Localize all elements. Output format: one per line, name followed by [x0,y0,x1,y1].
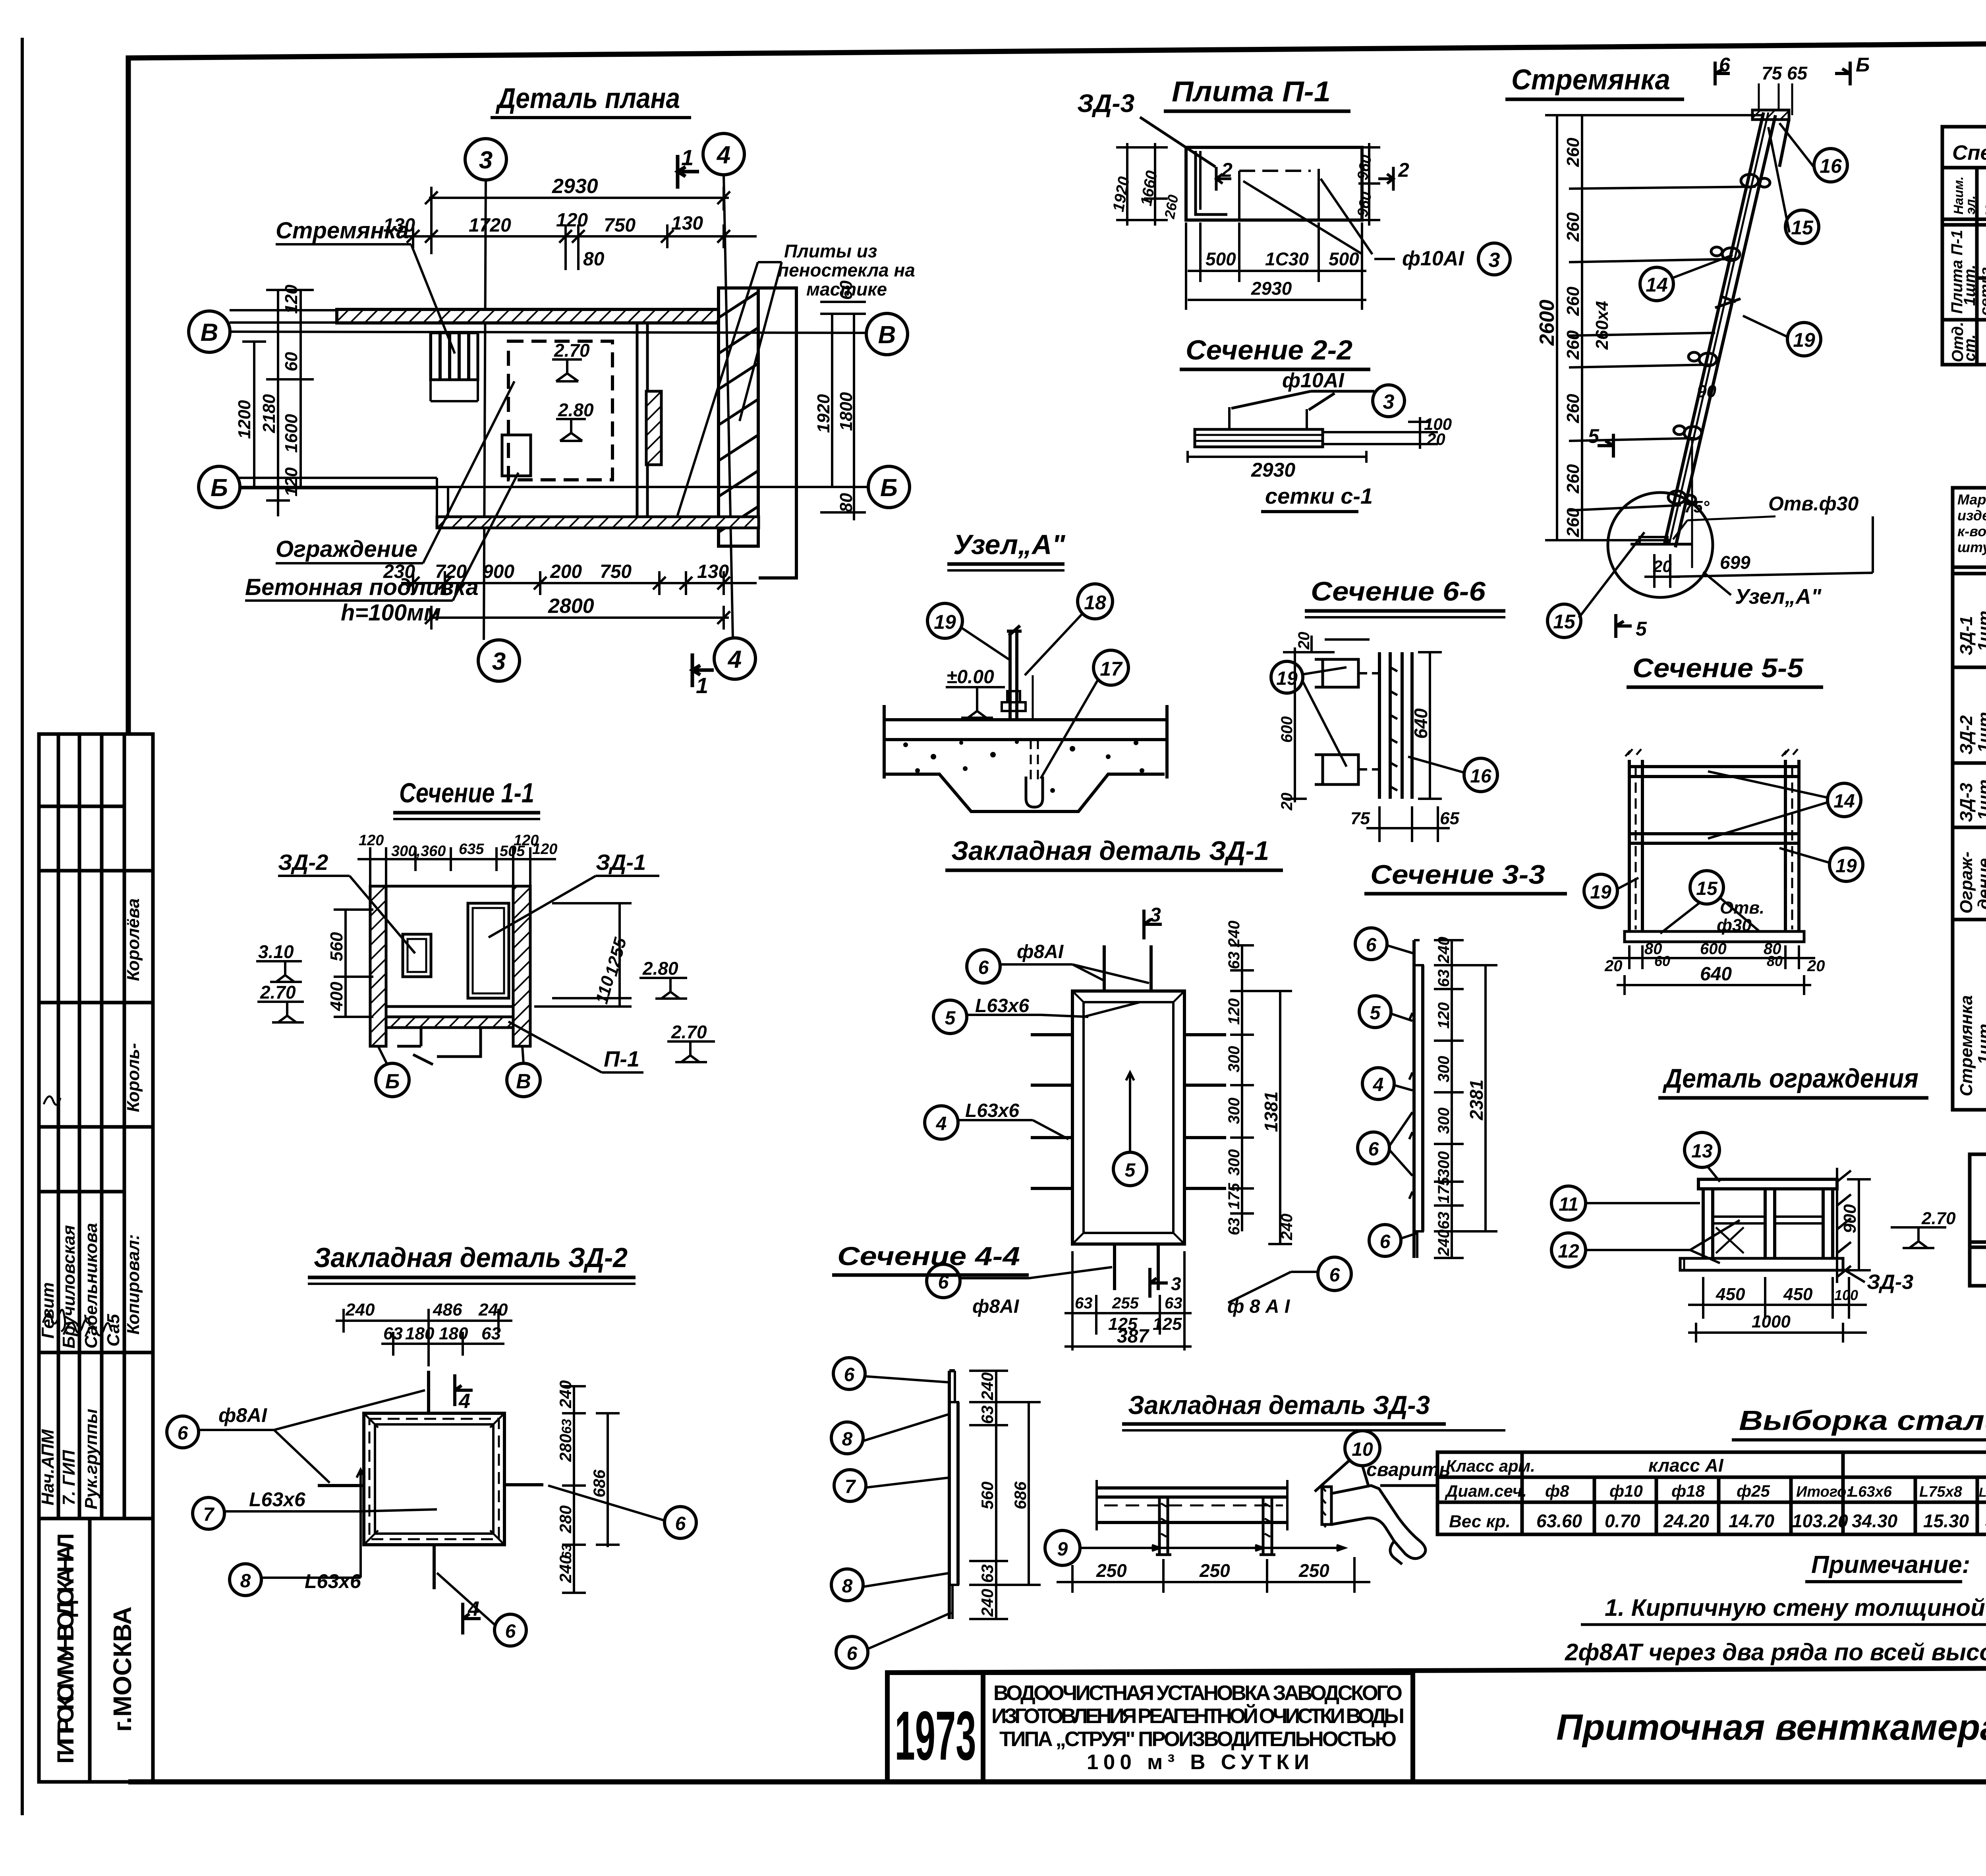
svg-text:П-1: П-1 [604,1046,639,1071]
plan axis circle 3 top [189,133,910,681]
section 1-1 left dims rotated [334,910,373,1017]
section 1-1 inner big rect ZD-1 [468,903,509,998]
svg-text:5: 5 [1125,1160,1136,1181]
svg-text:900: 900 [1840,1204,1860,1233]
svg-text:ф10АI: ф10АI [1402,247,1464,270]
svg-text:80: 80 [1767,953,1783,969]
ladder circles [1547,149,1847,638]
svg-text:Копировал:: Копировал: [124,1234,143,1335]
ZD-2 square frame [364,1413,504,1545]
svg-text:120: 120 [1435,1002,1453,1029]
svg-text:63: 63 [481,1324,501,1343]
svg-text:65: 65 [1440,809,1459,828]
svg-text:ТИПА „СТРУЯ" ПРОИЗВОДИТЕЛЬНОСТ: ТИПА „СТРУЯ" ПРОИЗВОДИТЕЛЬНОСТЬЮ [999,1727,1397,1751]
svg-text:120: 120 [359,832,384,849]
ZD-1 section mark 3 [1144,910,1168,1298]
ZD-3 plate [1097,1480,1287,1555]
table: steel selection [1437,1452,1986,1534]
svg-text:240: 240 [556,1380,575,1408]
svg-text:7: 7 [203,1504,215,1525]
plate P-1 left dims [1116,143,1192,226]
svg-text:686: 686 [1011,1481,1030,1509]
svg-text:1шт: 1шт [1974,779,1986,820]
svg-text:6: 6 [178,1423,188,1444]
svg-text:9: 9 [1057,1539,1068,1560]
title block description [991,1681,1404,1774]
svg-text:19: 19 [1793,329,1815,351]
svg-text:Стремянка: Стремянка [276,218,409,243]
svg-text:Мар-: Мар- [1983,186,1986,216]
svg-text:L75х8: L75х8 [1919,1484,1963,1500]
svg-text:Сечение 3-3: Сечение 3-3 [1370,860,1545,890]
svg-text:2.70: 2.70 [671,1022,707,1042]
svg-text:260: 260 [1563,330,1583,360]
svg-text:6: 6 [938,1272,949,1293]
title block [887,1666,1986,1782]
plan bottom dim chain [401,571,757,595]
svg-text:14.70: 14.70 [1729,1511,1775,1531]
table: materials consumption [1970,1154,1986,1286]
svg-text:240: 240 [978,1589,997,1617]
svg-text:60: 60 [1654,953,1670,969]
plan bottom wall thin segment [238,478,448,527]
svg-text:издел: издел [1957,507,1986,524]
svg-text:ГИПРОКОММУНВОДОКАНАЛ: ГИПРОКОММУНВОДОКАНАЛ [53,1533,79,1764]
svg-text:20: 20 [1653,557,1672,576]
svg-text:63.60: 63.60 [1536,1511,1582,1531]
stamp column table [39,734,153,1782]
svg-text:5: 5 [1370,1003,1381,1024]
svg-text:Узел„А": Узел„А" [1735,585,1822,609]
plan dim 2800 [425,606,730,630]
plan labels with leaders [245,218,479,626]
ladder section marks 6 top [1715,62,1850,85]
svg-text:387: 387 [1117,1326,1149,1347]
svg-text:640: 640 [1410,708,1431,739]
svg-text:В: В [878,321,896,349]
svg-text:20: 20 [1278,793,1296,811]
svg-text:эл.: эл. [1963,195,1978,214]
node A slab [884,705,1167,811]
svg-text:Б: Б [1856,54,1870,76]
section 4-4 circles [831,1358,868,1668]
plate P-1 circled 3 [1478,243,1510,275]
svg-text:280: 280 [556,1434,575,1462]
svg-text:ЗД-1: ЗД-1 [596,850,646,875]
svg-text:13: 13 [1691,1141,1713,1162]
svg-text:240: 240 [1435,937,1453,964]
svg-text:4: 4 [458,1390,470,1413]
svg-text:260х4: 260х4 [1592,301,1612,350]
svg-text:Стремянка: Стремянка [1511,64,1670,96]
svg-text:мастике: мастике [806,279,887,299]
svg-text:19: 19 [1835,856,1857,877]
plan dim chain row2 [401,224,757,270]
svg-text:5: 5 [1636,618,1647,640]
ZD-1 bottom dims [1064,1251,1192,1350]
signatures scribbles [43,1096,111,1337]
svg-text:1: 1 [696,673,708,698]
svg-text:260: 260 [1563,137,1583,167]
svg-text:75°: 75° [1684,497,1710,516]
svg-text:1. Кирпичную стену толщиной: 1. Кирпичную стену толщиной 120мм армиро… [1605,1594,1986,1621]
svg-text:20: 20 [1426,430,1445,448]
plan elevation mark 2.70 [552,359,582,381]
node A level mark [946,687,1005,718]
svg-text:240: 240 [345,1300,375,1320]
plan top dim chain 2930 [425,187,730,254]
svg-text:L63х6: L63х6 [305,1570,361,1592]
svg-text:1шт.: 1шт. [1961,265,1978,306]
ZD-1 side studs [1031,1035,1226,1188]
svg-text:635: 635 [459,841,484,858]
svg-text:63 240: 63 240 [1225,921,1243,969]
rotated row group labels [1948,230,1986,362]
svg-text:1600: 1600 [282,414,301,453]
svg-text:80: 80 [837,493,856,512]
svg-text:75: 75 [1350,809,1370,828]
svg-text:400: 400 [327,981,346,1011]
section 1-1 top dims [357,847,556,892]
svg-text:ЗД-1: ЗД-1 [1957,616,1976,655]
svg-text:Диам.сеч.: Диам.сеч. [1445,1482,1527,1500]
svg-text:3: 3 [1489,249,1500,272]
svg-text:8: 8 [240,1571,251,1592]
plan top wall hatched strip [337,309,719,323]
section 6-6 dims [1283,636,1450,842]
svg-text:ф30: ф30 [1717,916,1752,935]
svg-text:14: 14 [1833,791,1855,812]
svg-text:6: 6 [1380,1231,1391,1252]
stamp rotated labels [38,898,143,1509]
svg-text:2.80: 2.80 [558,400,594,420]
svg-text:3: 3 [1150,904,1161,926]
svg-text:Выборка стали на все издел: Выборка стали на все изделия [1739,1405,1986,1436]
svg-text:260: 260 [1563,394,1583,423]
svg-text:63: 63 [383,1324,403,1343]
svg-text:300: 300 [1435,1056,1453,1082]
svg-text:1шт.: 1шт. [1974,1019,1986,1065]
section 1-1 labels [278,850,646,1071]
svg-text:240: 240 [1278,1213,1296,1240]
section 5-5 frame [1625,749,1804,942]
ladder top plate [1752,110,1789,120]
ZD-1 frame [1072,991,1184,1244]
svg-text:3: 3 [1383,390,1395,413]
svg-text:4: 4 [936,1113,947,1134]
svg-text:h=100мм: h=100мм [341,600,441,626]
svg-text:3: 3 [1171,1273,1181,1294]
svg-text:2381: 2381 [1466,1080,1487,1121]
svg-text:Марка: Марка [1957,491,1986,508]
svg-text:6: 6 [1366,935,1377,956]
svg-text:Сечение 4-4: Сечение 4-4 [837,1241,1020,1271]
svg-text:120: 120 [556,210,588,231]
svg-text:600: 600 [1278,716,1296,743]
svg-text:250: 250 [1298,1560,1329,1581]
svg-text:Гевит: Гевит [38,1282,58,1339]
svg-text:260: 260 [1563,464,1583,494]
svg-text:Б: Б [880,474,898,502]
ZD-1 top studs [1104,945,1151,991]
plan axis lines [230,175,868,640]
plate P-1 body [1186,147,1372,254]
node A anchor [1002,626,1043,807]
svg-text:6: 6 [844,1364,855,1385]
svg-text:4: 4 [727,646,742,673]
plan bottom hatched wall [437,517,759,528]
svg-text:2.70: 2.70 [1921,1209,1956,1228]
svg-text:Сечение 2-2: Сечение 2-2 [1186,334,1352,365]
svg-text:Закладная деталь ЗД-1: Закладная деталь ЗД-1 [951,836,1269,866]
section 1-1 walls [370,886,386,1046]
ZD-3 dims 250 [1057,1557,1370,1593]
ladder rungs [1668,174,1770,504]
svg-text:ЗД-2: ЗД-2 [278,850,328,875]
svg-text:20: 20 [1807,957,1825,975]
svg-text:Деталь плана: Деталь плана [495,83,680,114]
svg-text:1800: 1800 [837,392,856,431]
title: steel selection for all products [1732,1405,1986,1440]
svg-text:1: 1 [681,145,694,170]
svg-text:20: 20 [1295,632,1313,650]
svg-text:Сечение 6-6: Сечение 6-6 [1311,576,1486,607]
svg-text:±0.00: ±0.00 [947,667,994,688]
svg-text:7: 7 [845,1476,856,1497]
svg-text:600: 600 [1700,940,1727,958]
svg-text:560: 560 [327,932,346,961]
svg-text:сварить: сварить [1366,1459,1451,1480]
svg-text:пеностекла на: пеностекла на [778,260,915,280]
plan small rect 340x210 [502,435,531,476]
svg-text:3: 3 [492,648,506,675]
svg-text:300: 300 [1225,1149,1243,1176]
hook profile [1322,1487,1331,1524]
plan top wall left thin segment [230,310,338,323]
table: specification steel for 1 element [1942,127,1986,365]
ZD-2 right dims [562,1386,620,1593]
svg-text:Нач.АПМ: Нач.АПМ [38,1429,58,1505]
sheet edge line left [21,38,24,1815]
svg-text:6: 6 [1719,54,1731,76]
svg-text:20: 20 [1604,957,1623,975]
svg-text:Примечание:: Примечание: [1811,1551,1970,1578]
fence structure [1680,1179,1843,1270]
svg-text:180: 180 [439,1324,468,1343]
section 1-1 bottom slab [386,1007,513,1065]
svg-text:2600: 2600 [1536,299,1559,346]
ZD-2 circles [167,1416,696,1646]
section 4-4 dims [969,1371,1041,1619]
svg-text:0.70: 0.70 [1605,1511,1640,1531]
svg-text:180: 180 [405,1324,435,1343]
svg-text:Сабельникова: Сабельникова [81,1223,101,1349]
svg-text:3.10: 3.10 [258,941,294,962]
ZD-2 studs [318,1371,543,1589]
svg-text:120: 120 [282,467,301,497]
svg-text:1шт: 1шт [1974,611,1986,651]
ladder rails [1664,112,1789,547]
svg-text:2930: 2930 [552,175,598,198]
svg-text:120: 120 [532,841,557,858]
svg-text:L63х6: L63х6 [975,995,1029,1016]
svg-text:L63х6: L63х6 [1849,1484,1892,1500]
svg-text:Король-: Король- [124,1043,143,1112]
svg-text:130: 130 [671,213,703,234]
section 4-4 plate [949,1371,958,1619]
big table header texts [1957,491,1986,558]
svg-text:1973: 1973 [895,1697,976,1775]
svg-text:240: 240 [478,1300,508,1320]
svg-text:ЗД-3: ЗД-3 [1957,783,1976,822]
svg-text:ф25: ф25 [1737,1482,1770,1500]
svg-text:ф8АI: ф8АI [1017,941,1064,962]
svg-text:175: 175 [1225,1183,1243,1209]
svg-text:4: 4 [468,1598,479,1621]
svg-text:300,360: 300,360 [391,843,446,860]
svg-text:16: 16 [1820,155,1842,177]
section 1-1 axis circles [376,1046,540,1097]
section 3-3 plate [1409,940,1423,1258]
svg-text:Приточная венткамера.: Приточная венткамера. [1556,1707,1986,1748]
section 6-6 circles [1271,661,1497,792]
svg-text:75 65: 75 65 [1762,63,1808,83]
svg-text:18: 18 [1084,591,1106,614]
svg-text:В: В [201,319,218,346]
svg-text:686: 686 [590,1469,609,1497]
fence circles [1551,1132,1719,1267]
section 1-1 right dims rotated [534,903,632,1007]
svg-text:250: 250 [1199,1560,1230,1581]
ZD-3 circle 10 and hook [1345,1431,1380,1466]
svg-text:ВОДООЧИСТНАЯ УСТАНОВКА ЗАВОДСК: ВОДООЧИСТНАЯ УСТАНОВКА ЗАВОДСКОГО [993,1681,1403,1705]
svg-text:Плита П-1: Плита П-1 [1172,76,1331,108]
svg-text:750: 750 [604,215,636,236]
svg-text:Класс арм.: Класс арм. [1446,1457,1535,1475]
svg-text:2: 2 [1221,159,1233,181]
svg-text:120: 120 [282,284,301,314]
svg-text:15: 15 [1791,216,1814,239]
plan inner hatched insert [646,391,661,465]
svg-text:ф10: ф10 [1609,1482,1643,1500]
svg-text:450: 450 [1783,1285,1813,1304]
svg-text:63: 63 [1435,970,1453,987]
svg-text:14: 14 [1646,274,1668,296]
svg-text:Закладная деталь ЗД-2: Закладная деталь ЗД-2 [314,1242,628,1273]
svg-text:300: 300 [1435,1107,1453,1134]
svg-text:ф10АI: ф10АI [1282,369,1345,392]
svg-text:Плиты из: Плиты из [784,241,877,261]
ZD-1 bottom studs [1115,1244,1158,1290]
ladder base detail circle [1608,493,1713,597]
svg-text:Спецификация стали на 1 элемен: Спецификация стали на 1 элемент [1952,141,1986,164]
svg-text:19: 19 [1590,882,1611,903]
svg-text:6: 6 [847,1643,858,1664]
svg-text:486: 486 [433,1300,462,1320]
svg-text:L63х6: L63х6 [965,1100,1019,1121]
section 1-1 elevation marks [256,961,715,1062]
svg-text:15: 15 [1553,611,1576,633]
notes [1563,1551,1986,1669]
svg-text:500: 500 [1206,249,1236,269]
plate P-1 right dims [1358,143,1380,226]
section 3-3 circles [1355,928,1401,1256]
svg-text:2.80: 2.80 [642,958,678,979]
svg-text:500: 500 [1329,249,1359,269]
node A circles [927,584,1128,685]
svg-text:к-во: к-во [1957,523,1986,539]
svg-text:63: 63 [978,1405,997,1424]
svg-text:ф8АI: ф8АI [218,1404,267,1426]
svg-text:640: 640 [1700,964,1732,985]
svg-text:8: 8 [842,1576,853,1597]
group labels rotated [1957,611,1986,1096]
svg-text:Бетонная подливка: Бетонная подливка [245,574,479,600]
plan fence dashed rect [508,341,612,480]
svg-text:ЗД-2: ЗД-2 [1957,715,1976,755]
svg-text:ф8: ф8 [1545,1482,1569,1500]
svg-text:63: 63 [1165,1294,1182,1312]
svg-text:4: 4 [716,141,730,169]
svg-text:2930: 2930 [1251,459,1295,481]
svg-text:34.30: 34.30 [1852,1511,1898,1531]
svg-text:260: 260 [1563,508,1583,537]
svg-text:В: В [516,1070,531,1093]
plan right wall hatched [719,288,758,546]
svg-text:Итого:: Итого: [1796,1484,1851,1500]
svg-text:штук: штук [1957,539,1986,555]
svg-text:100: 100 [1834,1287,1858,1303]
svg-text:125: 125 [1153,1314,1182,1334]
stamp big cells [53,1533,137,1764]
svg-text:Отв.ф30: Отв.ф30 [1768,493,1858,515]
ladder dim chain [1545,115,1764,540]
svg-text:80: 80 [583,249,605,270]
svg-text:6: 6 [675,1513,686,1534]
svg-text:сетки с-1: сетки с-1 [1265,483,1373,508]
svg-text:63: 63 [978,1564,997,1583]
svg-text:5: 5 [1588,425,1600,447]
svg-text:63: 63 [559,1419,574,1434]
svg-text:1381: 1381 [1261,1092,1281,1132]
svg-text:класс АI: класс АI [1648,1455,1724,1476]
svg-text:15: 15 [1696,878,1718,899]
section 3-3 dims [1434,940,1497,1258]
svg-text:ф8АI: ф8АI [972,1296,1020,1317]
plan outer poof wall corner piece top-right [759,288,796,578]
svg-text:1200: 1200 [235,400,254,439]
svg-text:Сечение 1-1: Сечение 1-1 [399,777,534,808]
plan left dim chains rotated [242,290,314,516]
section 6-6 plates [1315,652,1412,799]
svg-text:280: 280 [556,1505,575,1534]
svg-text:1920: 1920 [814,394,833,433]
svg-text:60: 60 [282,352,301,371]
svg-text:250: 250 [1096,1560,1127,1581]
svg-text:6: 6 [978,957,989,978]
svg-text:11: 11 [1559,1194,1578,1215]
svg-text:L63х6: L63х6 [249,1488,306,1511]
svg-text:6: 6 [1329,1265,1340,1286]
svg-text:450: 450 [1716,1285,1745,1304]
svg-text:1000: 1000 [1752,1312,1791,1331]
plan ladder hatch block [431,333,478,380]
svg-text:10: 10 [1352,1439,1373,1460]
plan elevation mark 2.80 [556,419,586,441]
svg-text:Узел„А": Узел„А" [953,529,1065,560]
ladder section marks 5 [1598,434,1632,638]
svg-text:Сечение 5-5: Сечение 5-5 [1632,653,1804,683]
